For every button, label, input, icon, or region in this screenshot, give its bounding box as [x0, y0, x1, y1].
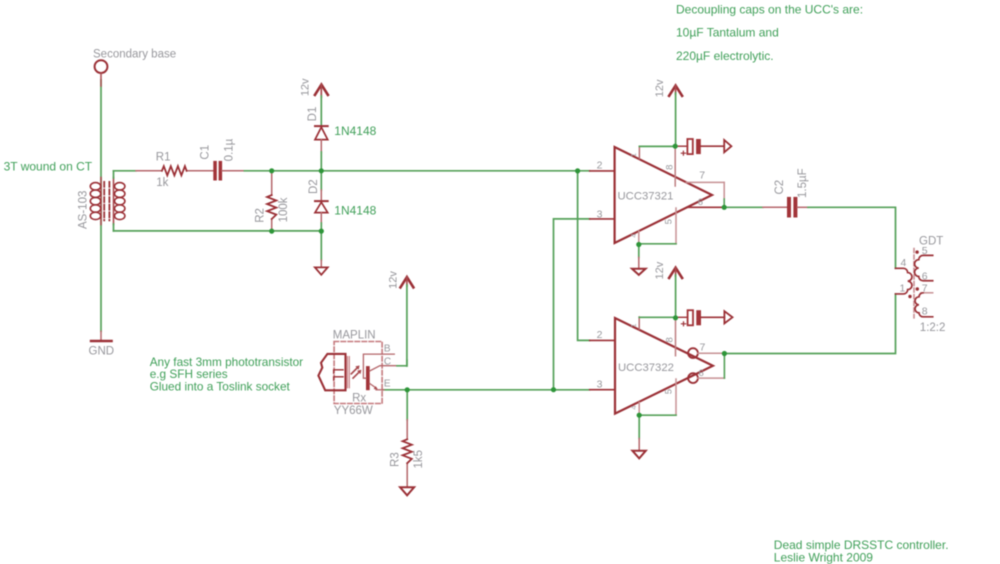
supply 12v (phototransistor collector) [400, 277, 413, 366]
supply 12v (U2) [669, 268, 682, 318]
svg-text:Leslie Wright 2009: Leslie Wright 2009 [774, 551, 873, 564]
svg-text:Rx: Rx [352, 393, 366, 405]
supply 12v (U1) [669, 86, 682, 147]
connector inner glyph [334, 370, 344, 380]
svg-text:YY66W: YY66W [334, 405, 373, 417]
collector lead [370, 366, 397, 371]
wire: pin5/pin4 gnd link U2 [639, 414, 676, 416]
svg-text:E: E [384, 379, 391, 390]
decoupling capacitor (U2, polarized) [676, 310, 733, 326]
svg-text:Decoupling caps on the UCC's a: Decoupling caps on the UCC's are: [676, 3, 863, 17]
svg-text:3: 3 [597, 208, 603, 220]
phototransistor base bar [366, 366, 370, 390]
wire: transformer right leads [113, 171, 115, 231]
ground GND (T-bar) [91, 331, 112, 341]
wire: top net (C1 to UCC37321 pin2) [244, 170, 589, 172]
svg-text:6: 6 [698, 197, 703, 208]
wire: top net (transformer to R1) [114, 170, 137, 172]
ground (below R3) [400, 487, 414, 495]
svg-text:Glued into a Toslink socket: Glued into a Toslink socket [150, 379, 291, 393]
svg-text:1N4148: 1N4148 [334, 124, 376, 138]
decoupling capacitor (U1, polarized) [675, 139, 731, 155]
wire: U1 output to C2 [724, 206, 763, 208]
wire: U1 vdd link [639, 145, 675, 147]
svg-text:UCC37322: UCC37322 [618, 362, 674, 374]
svg-text:C2: C2 [774, 180, 786, 195]
light arrows [351, 368, 359, 379]
svg-text:5: 5 [664, 389, 675, 394]
svg-text:8: 8 [664, 165, 675, 170]
emitter lead with arrow [370, 384, 377, 389]
wire: secondary base vertical [100, 80, 102, 331]
base lead [363, 354, 394, 378]
toslink connector body [318, 354, 345, 390]
svg-text:3T wound on CT: 3T wound on CT [4, 159, 93, 173]
svg-text:4: 4 [629, 233, 638, 237]
capacitor C2 [763, 197, 808, 218]
ground (below U1) [632, 245, 646, 275]
wire: U2 vdd link [639, 316, 675, 318]
svg-text:2: 2 [597, 160, 603, 172]
terminal: secondary base pad [95, 60, 108, 86]
svg-text:MAPLIN: MAPLIN [333, 330, 376, 342]
diode D1 [315, 126, 328, 153]
svg-text:6: 6 [699, 368, 704, 379]
svg-text:D1: D1 [307, 107, 319, 122]
svg-text:12v: 12v [387, 271, 399, 289]
svg-text:5: 5 [922, 245, 928, 257]
svg-text:R3: R3 [389, 452, 401, 467]
svg-text:10µF Tantalum and: 10µF Tantalum and [676, 26, 779, 40]
junction dots [269, 144, 727, 418]
wire: D1 to top net [320, 152, 322, 171]
supply 12v (above D1) [315, 85, 328, 126]
op-amp driver U1 UCC37321 [590, 146, 725, 244]
svg-text:8: 8 [665, 337, 676, 342]
svg-text:1: 1 [900, 283, 906, 295]
svg-text:Secondary base: Secondary base [93, 49, 176, 61]
svg-text:5: 5 [663, 219, 674, 224]
op-amp driver U2 UCC37322 [590, 317, 725, 415]
svg-text:AS-103: AS-103 [78, 191, 90, 229]
svg-text:1k5: 1k5 [413, 450, 425, 469]
svg-text:1: 1 [629, 153, 638, 157]
resistor R1 [136, 166, 213, 175]
ground (below U2) [632, 415, 645, 458]
transformer T1 AS-103 [90, 178, 125, 225]
svg-text:1: 1 [629, 323, 638, 327]
wire: collector to 12v [397, 360, 407, 366]
svg-text:7: 7 [922, 282, 928, 294]
wire: C2 to GDT pin4 [808, 207, 896, 268]
svg-text:2: 2 [597, 329, 603, 341]
diode D2 [315, 171, 328, 231]
wire: emitter net to UCC37322 pin3 [383, 389, 590, 391]
wire: pin3 net UCC37321 [554, 219, 590, 390]
lens lines [347, 357, 349, 388]
svg-text:3: 3 [597, 379, 603, 391]
svg-text:UCC37321: UCC37321 [618, 191, 674, 203]
svg-text:7: 7 [699, 169, 705, 181]
svg-text:D2: D2 [308, 179, 320, 194]
svg-text:1k: 1k [156, 177, 168, 189]
svg-text:6: 6 [922, 271, 928, 283]
wire: pin2 net down to UCC37322 [578, 171, 590, 341]
svg-text:12v: 12v [300, 78, 312, 96]
svg-text:1.5µF: 1.5µF [797, 168, 809, 198]
svg-text:100k: 100k [278, 197, 290, 222]
svg-text:B: B [384, 344, 391, 355]
svg-text:0.1µ: 0.1µ [223, 138, 235, 161]
dashed enclosure box [334, 342, 382, 404]
transformer GDT [896, 249, 933, 318]
wire: GDT pin1 to U2 output [724, 294, 895, 354]
svg-text:GND: GND [89, 346, 115, 358]
svg-text:12v: 12v [654, 261, 666, 279]
capacitor C1 [213, 161, 244, 181]
svg-text:12v: 12v [654, 79, 666, 97]
resistor R2 [267, 171, 276, 231]
phototransistor module Rx (Toslink receiver) [318, 342, 397, 404]
svg-text:R2: R2 [255, 208, 267, 223]
svg-text:C1: C1 [199, 145, 211, 160]
svg-text:7: 7 [700, 342, 706, 354]
svg-text:8: 8 [922, 306, 928, 318]
svg-text:1N4148: 1N4148 [334, 203, 376, 217]
ground (below D2) [315, 231, 328, 275]
resistor R3 [403, 390, 412, 487]
svg-text:C: C [384, 356, 391, 367]
svg-text:4: 4 [900, 257, 906, 269]
svg-text:R1: R1 [156, 152, 171, 164]
wire: bottom net (transformer to D2) [114, 230, 322, 232]
svg-text:1:2:2: 1:2:2 [920, 322, 946, 334]
svg-text:4: 4 [629, 405, 638, 409]
svg-text:220µF electrolytic.: 220µF electrolytic. [676, 49, 774, 63]
wire: pin5/pin4 gnd link U1 [639, 243, 676, 245]
